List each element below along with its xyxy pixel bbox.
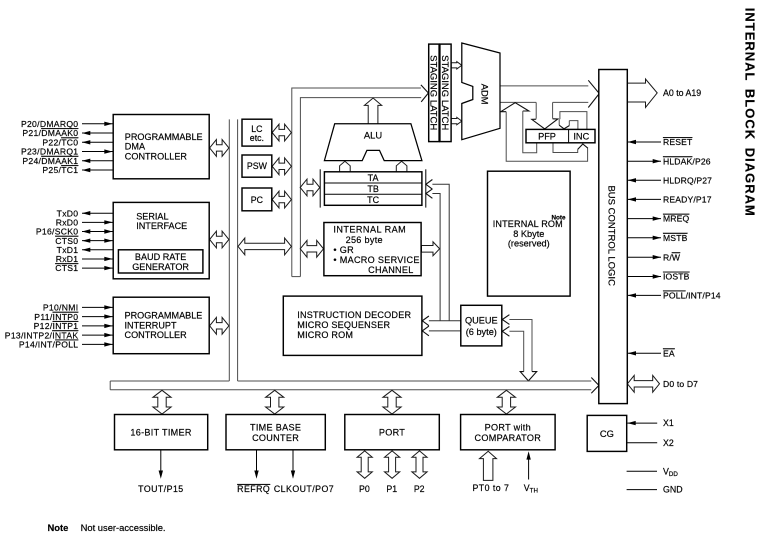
block - time base counter — [226, 415, 325, 450]
svg-text:R/W: R/W — [663, 252, 681, 262]
svg-text:16-BIT TIMER: 16-BIT TIMER — [130, 427, 192, 437]
svg-text:QUEUE: QUEUE — [465, 316, 498, 326]
wire - arrowhead into INC bottom — [578, 144, 588, 149]
pin arrow - VTH threshold input — [528, 458, 530, 480]
wire - interrupt controller to internal bus double arrow — [210, 317, 229, 334]
pin arrows - interrupt controller signals — [82, 306, 113, 308]
svg-text:Not user-accessible.: Not user-accessible. — [81, 522, 166, 533]
svg-text:(6 byte): (6 byte) — [466, 327, 497, 337]
svg-text:COMPARATOR: COMPARATOR — [474, 433, 541, 443]
svg-text:P1: P1 — [386, 484, 397, 494]
svg-text:P14/INT/POLL: P14/INT/POLL — [19, 340, 79, 350]
block - internal RAM 256 byte — [324, 223, 421, 276]
wire - bottom bus to port with comparator double arrow — [497, 390, 515, 414]
svg-text:(reserved): (reserved) — [508, 238, 550, 248]
wire - loop over INC top — [560, 112, 587, 130]
svg-text:HLDAK/P26: HLDAK/P26 — [663, 156, 711, 166]
block - temporary registers TA TB TC — [319, 169, 321, 207]
svg-text:STAGING LATCH: STAGING LATCH — [439, 55, 450, 130]
svg-text:IOSTB: IOSTB — [663, 272, 690, 282]
wire - CPU bus to internal RAM double arrow — [300, 240, 323, 257]
pin wire - X2 crystal — [627, 442, 657, 444]
svg-text:TIME BASE: TIME BASE — [250, 423, 301, 433]
block - 16-bit timer — [115, 415, 208, 450]
svg-text:PC: PC — [251, 195, 264, 205]
block - CG clock generator — [587, 415, 627, 451]
svg-text:PORT with: PORT with — [485, 423, 531, 433]
wire - queue output lines to instruction decoder and TB TC registers — [432, 184, 449, 320]
svg-text:STAGING LATCH: STAGING LATCH — [428, 55, 439, 130]
wire - CPU bus to TA register double arrow — [300, 179, 320, 196]
svg-text:A0 to A19: A0 to A19 — [663, 88, 701, 98]
svg-text:ALU: ALU — [364, 130, 382, 141]
wire - ADM output address bus to bus control logic — [500, 85, 588, 87]
svg-text:MICRO SEQUENSER: MICRO SEQUENSER — [297, 320, 390, 330]
wire - P2 port double arrow — [412, 451, 427, 478]
svg-text:MREQ: MREQ — [663, 214, 690, 224]
svg-text:256 byte: 256 byte — [346, 235, 383, 245]
block - ADM address modifier — [462, 43, 500, 140]
svg-text:DMA: DMA — [125, 142, 146, 152]
svg-text:INTERFACE: INTERFACE — [136, 221, 187, 231]
svg-text:Note: Note — [48, 522, 69, 533]
svg-text:PFP: PFP — [538, 132, 556, 142]
svg-text:etc.: etc. — [250, 133, 264, 143]
svg-text:PT0 to 7: PT0 to 7 — [472, 483, 509, 493]
wire - branch from address bus down to PFP with arrowheads — [535, 102, 537, 118]
svg-text:CG: CG — [600, 428, 614, 439]
wire - open arrowhead of bottom bus into bus control logic — [591, 378, 599, 394]
block - staging latch 2 — [440, 44, 451, 142]
wire - internal bus to CPU bus double arrow — [238, 238, 291, 255]
wire - arrowhead of queue lines into bottom data bus — [520, 372, 537, 381]
svg-text:TA: TA — [368, 173, 379, 183]
svg-text:• MACRO SERVICE: • MACRO SERVICE — [333, 255, 419, 265]
pin arrow - REFRQ output — [256, 450, 258, 472]
svg-text:X1: X1 — [663, 418, 674, 428]
block - staging latch 1 — [429, 44, 439, 142]
pin arrow - X1 crystal input — [627, 422, 657, 424]
wire - staging latch to ADM lower stub arrow — [451, 117, 462, 124]
svg-text:TC: TC — [367, 195, 379, 205]
block - internal ROM 8 Kbyte reserved — [488, 171, 571, 296]
svg-text:D0 to D7: D0 to D7 — [663, 379, 698, 389]
wire - TA/TB/TC to ALU left input chevron — [340, 161, 351, 171]
svg-text:BAUD RATE: BAUD RATE — [135, 252, 186, 262]
wire - ALU result arrow up to CPU bus — [364, 98, 381, 124]
svg-text:X2: X2 — [663, 438, 674, 448]
wire - P0 port double arrow — [357, 451, 372, 478]
pin arrows - DMA controller signals — [82, 123, 113, 125]
wire - internal RAM output arrow to queue line — [422, 242, 440, 256]
svg-text:TB: TB — [367, 184, 379, 194]
wire - arrow into latch between PFP and INC — [558, 119, 560, 125]
block - PSW register — [242, 155, 272, 177]
wire - PC register to CPU bus double arrow — [272, 191, 291, 208]
wire - PT0 to 7 input arrow into comparator port — [480, 451, 497, 480]
svg-text:MICRO ROM: MICRO ROM — [297, 330, 353, 340]
wire - staging latch to ADM upper stub arrow — [451, 62, 462, 69]
wire - main CPU bus vertical pair with top arms to staging latch — [292, 88, 421, 277]
svg-text:POLL/INT/P14: POLL/INT/P14 — [663, 291, 721, 301]
svg-text:P25/TC1: P25/TC1 — [42, 165, 78, 175]
wire - bottom bus to port double arrow — [383, 390, 401, 414]
block - port with comparator — [461, 415, 555, 450]
wire - A0 to A19 output arrow — [627, 79, 657, 107]
svg-text:PORT: PORT — [379, 427, 405, 437]
svg-text:Note: Note — [552, 215, 566, 222]
svg-text:TOUT/P15: TOUT/P15 — [138, 484, 183, 494]
block - programmable DMA controller — [113, 115, 209, 179]
pin arrows - bus control signals — [628, 141, 661, 143]
svg-text:CLKOUT/PO7: CLKOUT/PO7 — [274, 484, 334, 494]
svg-text:MSTB: MSTB — [663, 233, 688, 243]
svg-text:P2: P2 — [414, 484, 425, 494]
svg-text:PROGRAMMABLE: PROGRAMMABLE — [125, 132, 203, 142]
svg-text:CONTROLLER: CONTROLLER — [125, 330, 188, 340]
pin arrow - TOUT/P15 timer output — [160, 450, 162, 472]
block - ALU — [324, 124, 422, 161]
svg-text:BUS CONTROL LOGIC: BUS CONTROL LOGIC — [606, 185, 617, 286]
wire - bus control logic to D0-D7 double arrow — [627, 375, 659, 392]
svg-text:• GR: • GR — [333, 245, 354, 255]
block - instruction decoder micro sequenser micro ROM — [283, 296, 422, 355]
svg-text:CHANNEL: CHANNEL — [368, 265, 414, 275]
svg-text:PROGRAMMABLE: PROGRAMMABLE — [125, 311, 203, 321]
wire - serial interface to internal bus double arrow — [210, 231, 229, 248]
block - port block — [345, 415, 440, 450]
svg-text:INTERRUPT: INTERRUPT — [125, 320, 177, 330]
wire - bottom bus to time base counter double arrow — [266, 390, 284, 414]
wire - bottom peripheral data bus — [110, 380, 229, 382]
svg-text:CTS1: CTS1 — [55, 263, 78, 273]
block - serial interface — [113, 202, 209, 278]
svg-text:HLDRQ/P27: HLDRQ/P27 — [663, 175, 712, 185]
wire - queue fill lines from data bus — [509, 320, 532, 372]
svg-text:P0: P0 — [359, 484, 370, 494]
svg-text:GENERATOR: GENERATOR — [132, 262, 189, 272]
block - PC register — [242, 188, 272, 211]
svg-text:INC: INC — [573, 132, 589, 142]
wire - inner loop from PFP bottom — [523, 111, 537, 153]
svg-text:INTERNAL RAM: INTERNAL RAM — [333, 225, 406, 235]
block - LC etc register — [242, 119, 272, 146]
svg-text:REFRQ: REFRQ — [237, 484, 270, 494]
block - bus control logic — [599, 70, 628, 404]
svg-text:RESET: RESET — [663, 137, 693, 147]
wire - DMA controller to internal bus double arrow — [210, 140, 229, 157]
wire - LC register to CPU bus double arrow — [272, 124, 291, 141]
wire - left internal bus vertical pair — [228, 119, 230, 381]
svg-text:INSTRUCTION DECODER: INSTRUCTION DECODER — [297, 310, 411, 320]
pin arrows - serial interface signals — [82, 212, 113, 214]
wire - PFP/INC output arrow up into address bus — [501, 103, 529, 112]
svg-text:EA: EA — [663, 348, 675, 358]
svg-text:SERIAL: SERIAL — [136, 211, 168, 221]
wire - PSW register to CPU bus double arrow — [272, 158, 291, 175]
wire - TA/TB/TC to ALU right input chevron — [396, 161, 407, 171]
block - programmable interrupt controller — [113, 297, 209, 354]
svg-text:ADM: ADM — [479, 84, 490, 105]
wire - outer loop PFP/INC to incrementer input — [506, 112, 587, 162]
block - baud rate generator — [118, 250, 202, 273]
svg-text:READY/P17: READY/P17 — [663, 195, 712, 205]
svg-text:PSW: PSW — [247, 161, 268, 171]
block - PFP and INC registers — [526, 129, 595, 142]
svg-text:COUNTER: COUNTER — [252, 433, 299, 443]
wire - P1 port double arrow — [385, 451, 400, 478]
wire - open arrowhead of address bus into bus control logic — [588, 80, 599, 107]
pin arrow - CLKOUT/PO7 output — [292, 450, 294, 472]
svg-text:INTERNAL BLOCK DIAGRAM: INTERNAL BLOCK DIAGRAM — [743, 8, 758, 217]
wire - open arrowhead of CPU bus into staging latch — [421, 85, 429, 102]
pin wire - GND — [627, 489, 657, 491]
wire - stub from PFP bottom to INC input arrow — [553, 143, 578, 152]
svg-text:CONTROLLER: CONTROLLER — [125, 151, 188, 161]
wire - notch loop right of INC input — [569, 121, 578, 130]
wire - bottom bus to 16-bit timer double arrow — [153, 390, 171, 414]
svg-text:GND: GND — [663, 485, 683, 495]
pin wire - VDD supply — [627, 470, 657, 472]
block - queue 6 byte — [461, 305, 502, 346]
